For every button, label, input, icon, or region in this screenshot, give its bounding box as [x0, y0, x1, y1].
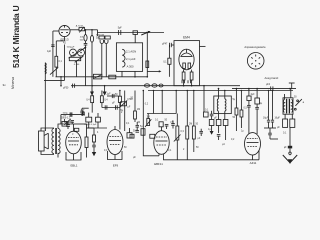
- svg-text:Anpassungswerte: Anpassungswerte: [244, 45, 266, 49]
- vertical x119.9: [119, 91, 121, 97]
- pot arrow on R3: [50, 67, 58, 74]
- capacitor C1 on W1: [119, 30, 121, 35]
- box row B11: [216, 120, 221, 134]
- wire y128 link: [87, 127, 108, 129]
- wire V2 bottom stem: [73, 154, 75, 160]
- svg-text:EF9: EF9: [113, 163, 119, 167]
- electrolytic cap E2: [271, 91, 274, 129]
- wire y96 stub: [107, 95, 118, 97]
- wire y80.4: [44, 79, 65, 81]
- coil in T1: [122, 49, 125, 67]
- cathode loop under V2: [66, 152, 81, 160]
- box above V2: [62, 119, 67, 126]
- junction dots: [60, 29, 273, 91]
- wire x285 lead: [284, 94, 286, 100]
- capacitor C17 x68: [66, 122, 70, 129]
- resistor R15 on x147.3: [146, 61, 149, 68]
- capacitor above V4: [165, 124, 169, 129]
- box AFC under gang: [69, 56, 83, 77]
- svg-text:4µF: 4µF: [81, 109, 85, 111]
- column x257 capacitor: [255, 107, 259, 134]
- svg-text:500µµF: 500µµF: [67, 46, 75, 48]
- switch contact oval S3: [159, 84, 163, 87]
- svg-text:A.Tonbl.: A.Tonbl.: [76, 24, 84, 27]
- vertical x176.2: [175, 91, 177, 114]
- wire bus stub x104.6: [104, 86, 106, 92]
- svg-text:1M: 1M: [137, 109, 140, 111]
- box B8: [150, 134, 155, 138]
- gang arrow: [69, 47, 87, 58]
- svg-text:µF50: µF50: [63, 88, 69, 90]
- transformer TR2 frame: [283, 98, 293, 114]
- capacitor C19 below elkos: [268, 128, 278, 139]
- wire V4 bottom stem: [158, 154, 160, 156]
- busX y88.6: [232, 88, 296, 90]
- svg-text:EBL1: EBL1: [70, 164, 77, 168]
- resistor R12: [186, 91, 189, 160]
- svg-text:µF47: µF47: [162, 43, 168, 45]
- box B9: [204, 112, 209, 117]
- wire V3 bottom stem: [114, 155, 116, 160]
- column x257 box: [255, 89, 260, 108]
- switch SW: [294, 99, 302, 110]
- svg-text:0,1µF: 0,1µF: [105, 94, 112, 96]
- electrolytic cap E1: [267, 91, 270, 129]
- bus2 y90.5: [148, 90, 293, 92]
- wire y71.4 with arrow: [147, 70, 161, 72]
- wire TR1 primary top: [58, 124, 74, 129]
- resistor R9 0,1M: [100, 91, 103, 108]
- box above V4: [159, 122, 163, 127]
- wire TR1 primary bottom: [57, 153, 59, 158]
- band coil box MW: [99, 36, 104, 39]
- svg-text:EBF11: EBF11: [154, 162, 163, 166]
- vertical wire x147.3: [146, 33, 148, 77]
- capacitor C20 on y96: [112, 94, 114, 98]
- wire T2 bottom leads: [219, 111, 225, 119]
- cathode loop under V3: [108, 151, 123, 160]
- svg-text:1M: 1M: [147, 117, 150, 119]
- column x248.9 box: [247, 89, 251, 106]
- tuning cap gang C3: [78, 49, 85, 56]
- svg-text:0,1µF 0,1µF: 0,1µF 0,1µF: [85, 124, 98, 126]
- wire pot to resistors: [85, 29, 98, 31]
- output transformer TR1: [52, 128, 60, 154]
- box row B10: [209, 120, 214, 132]
- wire stub EM4 box top right: [200, 45, 206, 47]
- svg-text:16µF: 16µF: [263, 118, 269, 120]
- tube V2 EBL1: [66, 124, 82, 154]
- svg-text:5000 0,1: 5000 0,1: [61, 117, 71, 119]
- box B4: [86, 113, 92, 128]
- wire y159.8 ground line: [164, 154, 260, 160]
- svg-text:EM4: EM4: [183, 36, 190, 40]
- wire x61 down: [60, 77, 62, 86]
- svg-text:514 K Miranda U: 514 K Miranda U: [11, 6, 21, 68]
- wire speaker bottom: [41, 151, 54, 155]
- arrow diagonal at W1: [141, 31, 150, 35]
- svg-text:1µF: 1µF: [47, 51, 52, 53]
- band coil box KW: [105, 36, 110, 39]
- wire T1 bottom leads: [122, 71, 135, 76]
- wire y124 node: [74, 123, 87, 125]
- resistor R14 x135: [134, 91, 137, 123]
- wire left vertical: [52, 31, 54, 77]
- capacitor above V2: [71, 121, 75, 124]
- column x94 box: [93, 128, 96, 142]
- column x94 capacitor: [92, 142, 96, 152]
- capacitor C15 x290: [288, 146, 292, 155]
- chassis arrow big: [283, 155, 297, 164]
- labels cluster above V3: [105, 94, 149, 124]
- tube V3 EF9: [107, 126, 123, 155]
- ground arrow at R2: [90, 92, 94, 96]
- antenna coil L1: [44, 63, 46, 132]
- resistor R11 tall with arrow: [174, 114, 181, 160]
- label 500uF: [63, 112, 69, 117]
- coil cup 1: [100, 40, 103, 44]
- capacitor C18 dark x83.3: [83, 112, 85, 116]
- misc value labels: [59, 38, 298, 159]
- capacitor C13: [217, 135, 221, 141]
- tube V5 AZ11: [245, 133, 261, 155]
- socket pinout circle: [247, 53, 264, 70]
- wire V5 right pin down: [258, 150, 260, 160]
- box on W1: [133, 31, 138, 43]
- svg-text:4µF: 4µF: [251, 94, 256, 96]
- wire T2 top leads: [219, 89, 225, 99]
- box on y76.8 line B3: [109, 75, 116, 79]
- switch S4: [64, 119, 73, 125]
- resistor R13: [192, 91, 195, 153]
- bus1 y85.7: [71, 85, 240, 87]
- wire elko bottoms: [264, 127, 276, 129]
- junction busX x290: [289, 88, 291, 90]
- wire top bus W1: [98, 32, 165, 34]
- vertical x153.5: [153, 91, 155, 114]
- wire x290 down to TR2: [290, 89, 292, 98]
- box B13: [283, 114, 288, 127]
- IF transformer can T2: [214, 96, 232, 114]
- stacked capacitor CA: [136, 122, 140, 132]
- capacitor C7 on y107.5: [105, 105, 107, 109]
- tube V4 EBF11: [154, 127, 169, 155]
- switch contact oval S1: [144, 84, 149, 87]
- resistor R6 left of EM4: [168, 47, 171, 77]
- box row B12: [223, 120, 228, 141]
- loudspeaker: [39, 131, 49, 151]
- svg-text:Ausg.transf.: Ausg.transf.: [265, 76, 280, 80]
- potentiometer P2: [120, 100, 128, 107]
- vertical x124.7: [124, 91, 126, 132]
- EM4 shield box: [174, 41, 200, 86]
- svg-text:2,1 AON: 2,1 AON: [126, 50, 136, 54]
- svg-text:Minerva: Minerva: [11, 77, 15, 89]
- resistor R5 under EM4: [190, 70, 193, 86]
- resistor R7 right of V2: [85, 124, 88, 158]
- box B14: [290, 114, 295, 127]
- capacitor C10: [171, 121, 175, 129]
- svg-text:MW KW: MW KW: [96, 34, 105, 36]
- resistor R4 under EM4: [182, 70, 185, 86]
- junction x61: [60, 76, 62, 78]
- box small 1,5: [74, 128, 79, 131]
- tuning cap gang C2: [70, 49, 77, 56]
- wire x60.9 down: [60, 115, 62, 124]
- capacitor C16 on y114.6: [70, 112, 72, 116]
- title text Minerva 514 K Miranda U: [11, 6, 21, 89]
- svg-text:16µF: 16µF: [275, 118, 281, 120]
- svg-text:5pF: 5pF: [118, 28, 123, 30]
- capacitor C6 left of EM4: [169, 43, 174, 47]
- vertical x236.4: [235, 89, 238, 131]
- capacitor C12: [210, 111, 214, 120]
- ground arrow x211.6: [210, 131, 214, 135]
- svg-text:3x: 3x: [3, 83, 7, 87]
- ground arrow x104.6: [103, 92, 107, 96]
- box B7: [130, 134, 134, 138]
- vertical x162.2: [161, 91, 163, 114]
- ground arrow x94: [92, 152, 96, 156]
- capacitor C8 on y107.5: [116, 105, 118, 109]
- tube V6 EM4: [179, 49, 194, 70]
- capacitor C4 1uF: [51, 45, 54, 47]
- mains transformer TR2: [283, 99, 292, 114]
- resistor R10 with arrow: [145, 114, 151, 128]
- antenna T symbol: [289, 83, 295, 89]
- svg-text:2M: 2M: [189, 124, 192, 126]
- wire y107.5: [102, 107, 120, 109]
- resistor R8 0,1M: [91, 91, 94, 113]
- svg-text:4.100: 4.100: [74, 64, 80, 66]
- svg-text:2,1 µAF: 2,1 µAF: [126, 57, 136, 61]
- wire x143.3 down: [143, 91, 159, 156]
- contact ticks: [182, 80, 191, 83]
- wire R3 top link: [56, 40, 64, 42]
- wire y114.6: [61, 114, 85, 116]
- labels in T1: [126, 50, 136, 69]
- resistor R3: [55, 41, 58, 77]
- junction on W1: [146, 32, 148, 34]
- wire tube V1 cathode down: [64, 37, 66, 41]
- resistor R1 70k: [84, 30, 88, 86]
- svg-text:A 300: A 300: [127, 64, 134, 68]
- wire v1 cathode lower: [64, 45, 66, 81]
- column x248.9 capacitor: [247, 105, 251, 134]
- wire y113.5: [147, 113, 176, 115]
- capacitor C14 on busX: [271, 86, 273, 90]
- box on y76.8 line B2: [93, 74, 101, 79]
- wire y76.8: [56, 76, 148, 78]
- wire tube anode right: [70, 29, 79, 31]
- potentiometer P1: [79, 27, 85, 33]
- tube V1 EF13: [59, 25, 70, 36]
- capacitor C11: [199, 129, 203, 136]
- wire x94 up: [87, 127, 95, 129]
- IF transformer can T1: [116, 43, 142, 72]
- svg-text:AZ11: AZ11: [250, 161, 257, 165]
- label EF13: [60, 38, 68, 45]
- wire tube grid left: [53, 30, 59, 32]
- wire speaker top: [41, 128, 54, 131]
- wire y108 stub: [82, 107, 89, 109]
- capacitor C5 on bus1 start: [73, 84, 75, 88]
- vertical x241.4: [240, 91, 243, 129]
- resistor R2 50k: [90, 30, 93, 92]
- switch contact oval S2: [152, 84, 157, 87]
- coil cup 2: [105, 40, 108, 44]
- box B5: [96, 113, 101, 128]
- cluster right of V3 box: [127, 128, 132, 138]
- vertical x204: [203, 86, 205, 112]
- capacitor C9 x82: [80, 108, 84, 116]
- wire x290 lower: [289, 127, 291, 146]
- wire V5 bottom stem: [252, 155, 254, 160]
- box B6: [141, 129, 145, 136]
